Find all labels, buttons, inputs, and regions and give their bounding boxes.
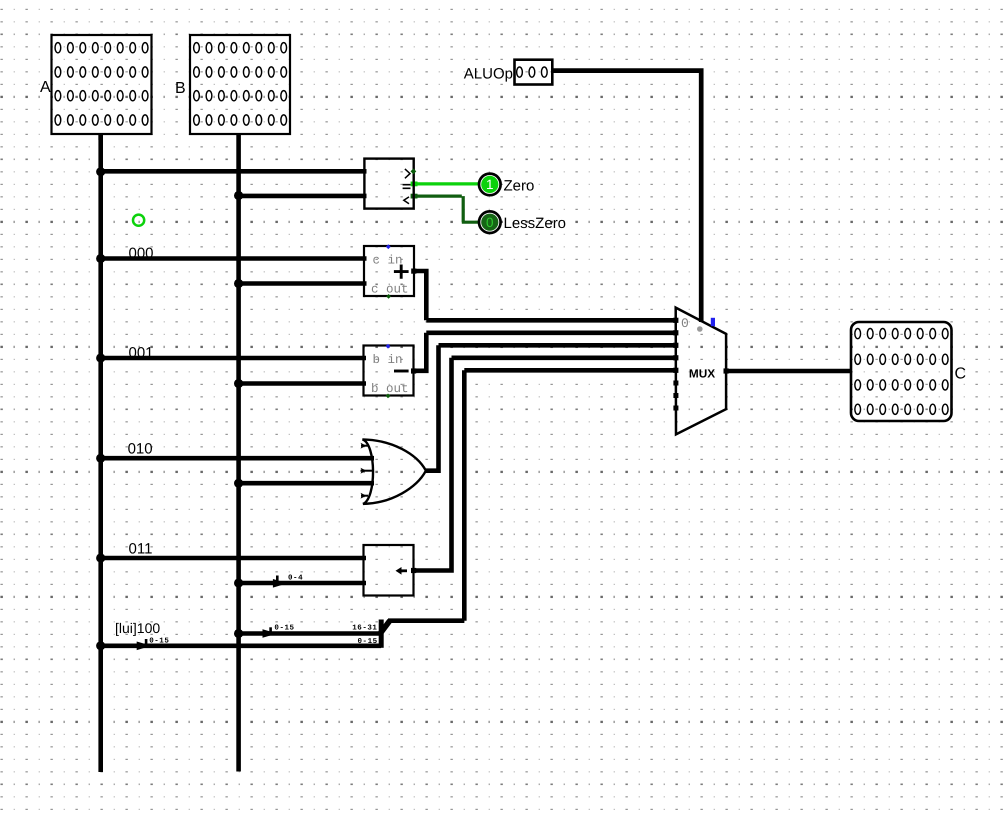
port pad mux input y357.8	[673, 355, 678, 360]
svg-text:1: 1	[486, 177, 494, 192]
junction B-sub	[234, 379, 243, 388]
splitter SP3 spine	[379, 620, 384, 648]
node unconnected wire end (green ring)	[133, 215, 144, 226]
svg-text:c out: c out	[371, 283, 409, 297]
adder U2	[364, 244, 414, 298]
svg-text:010: 010	[128, 441, 153, 458]
junction B-or	[234, 479, 243, 488]
wire A to comparator	[101, 169, 367, 174]
svg-text:ALUOp: ALUOp	[464, 66, 513, 83]
svg-text:011: 011	[129, 541, 153, 558]
svg-text:000: 000	[129, 245, 154, 262]
port mux in5	[673, 381, 678, 386]
port pad mux input y332.8	[673, 330, 678, 335]
junction B-shift	[234, 578, 243, 587]
wire A to adder	[101, 256, 367, 261]
input pin A	[52, 35, 152, 134]
wire lui to mux in4	[464, 368, 675, 373]
splitter SP1 0-4	[273, 576, 288, 588]
splitter SP4 0-15	[137, 639, 152, 650]
svg-text:0: 0	[681, 316, 689, 331]
wire mux out to C	[726, 369, 851, 374]
svg-text:0-15: 0-15	[357, 637, 377, 646]
wire comparator lt to LessZero (dark green)	[411, 194, 418, 199]
wire or out	[426, 345, 439, 470]
port pad mux input y370.3	[673, 368, 678, 373]
wire adder out	[414, 271, 426, 320]
svg-text:0: 0	[486, 215, 494, 230]
svg-text:0-15: 0-15	[149, 637, 169, 646]
wire subtractor to mux in1	[426, 330, 675, 335]
wire B to adder	[239, 281, 367, 286]
shifter U5	[364, 545, 414, 596]
comparator U1	[364, 159, 416, 209]
port pad mux input y345.3	[673, 343, 678, 348]
port dot comparator gt	[411, 169, 417, 175]
input pin ALUOp	[515, 60, 553, 85]
wire ALUOp to mux select	[552, 71, 701, 322]
port mux enable (blue)	[711, 318, 715, 326]
junction A-or	[96, 454, 105, 463]
wire A to or-gate	[101, 456, 374, 461]
wire A bus vertical	[98, 134, 103, 772]
input pin B	[190, 35, 290, 134]
port pad subtractor out	[411, 368, 416, 373]
port mux in6	[673, 393, 678, 398]
wire comparator eq to Zero (green)	[411, 181, 418, 186]
junction B-lui	[234, 629, 243, 638]
svg-text:001: 001	[129, 345, 154, 362]
svg-text:C: C	[955, 365, 967, 382]
wire lui bus horizontal	[388, 618, 464, 623]
output pin C	[851, 322, 952, 421]
wire lui bus vertical	[462, 370, 467, 620]
wire or to mux in2	[439, 343, 676, 348]
port adder carry-out (dark green)	[386, 294, 391, 299]
wire A pin stub	[98, 134, 103, 140]
port mux select dot	[697, 326, 703, 332]
svg-text:b out: b out	[371, 382, 409, 396]
svg-text:B: B	[175, 80, 186, 97]
wire B to subtractor	[239, 381, 366, 386]
splitter SP2 0-15	[263, 627, 278, 638]
port mux in7	[673, 406, 678, 411]
wire A to shifter	[101, 556, 366, 561]
svg-text:LessZero: LessZero	[504, 215, 567, 232]
port subtractor borrow-in (blue)	[386, 344, 391, 349]
subtractor U3	[364, 344, 414, 399]
port subtractor borrow-out (dark green)	[386, 394, 391, 399]
wire shifter out	[414, 358, 452, 571]
junction B-comp	[234, 191, 243, 200]
svg-text:b in: b in	[373, 353, 403, 367]
svg-text:0-4: 0-4	[288, 574, 303, 583]
port pad mux input y320.3	[673, 318, 678, 323]
svg-text:0-15: 0-15	[274, 624, 294, 633]
wire B to or-gate	[239, 481, 374, 486]
wire B to lui splitter	[239, 631, 381, 636]
svg-text:16-31: 16-31	[352, 624, 377, 633]
svg-text:c in: c in	[373, 253, 403, 267]
output pin Zero	[479, 174, 501, 196]
svg-text:[lui]100: [lui]100	[115, 620, 160, 636]
wire adder to mux in0	[426, 318, 675, 323]
junction A-comp	[96, 167, 105, 176]
port pad shifter out	[411, 568, 416, 573]
port pad adder out	[411, 269, 416, 274]
port adder carry-in (blue)	[386, 244, 391, 249]
or-gate U4	[361, 439, 426, 504]
wire A to lui splitter	[101, 643, 381, 648]
junction B-add	[234, 279, 243, 288]
output pin LessZero	[479, 211, 501, 233]
wire subtractor out	[414, 333, 427, 371]
wire B to comparator	[239, 194, 367, 199]
wire B bus vertical	[236, 134, 241, 772]
junction A-shift	[96, 553, 105, 562]
junction A-sub	[96, 353, 105, 362]
port pad mux out	[724, 368, 729, 373]
svg-text:Zero: Zero	[504, 178, 535, 195]
svg-text:MUX: MUX	[689, 366, 715, 380]
wire A to subtractor	[101, 356, 366, 361]
junction A-lui	[96, 641, 105, 650]
svg-text:A: A	[40, 79, 51, 96]
junction A-add	[96, 254, 105, 263]
multiplexer U6	[673, 308, 726, 435]
wire B to shifter	[239, 581, 366, 586]
splitter SP3 diagonal	[380, 621, 390, 634]
wire shifter to mux in3	[452, 355, 676, 360]
